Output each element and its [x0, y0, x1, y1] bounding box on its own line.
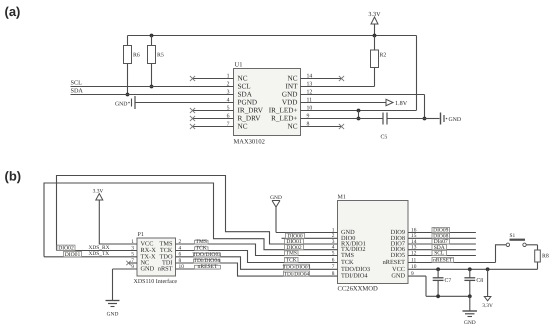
svg-text:NC: NC	[288, 75, 298, 83]
svg-text:(a): (a)	[5, 4, 21, 19]
svg-text:GND: GND	[282, 91, 298, 99]
svg-text:XDS_TX: XDS_TX	[89, 251, 110, 257]
svg-text:PGND: PGND	[238, 99, 258, 107]
svg-text:P1: P1	[138, 232, 144, 238]
svg-text:nRST: nRST	[158, 266, 173, 273]
svg-text:DIO01: DIO01	[65, 252, 81, 258]
svg-text:TMS: TMS	[341, 252, 354, 259]
svg-text:TCK: TCK	[196, 246, 207, 252]
svg-text:TDI/DIO04: TDI/DIO04	[284, 271, 310, 277]
svg-text:SCL: SCL	[434, 251, 445, 257]
svg-text:GND: GND	[449, 117, 462, 123]
svg-text:TMS: TMS	[286, 251, 297, 257]
svg-text:TMS: TMS	[195, 239, 207, 245]
svg-text:SDA: SDA	[71, 88, 84, 95]
svg-text:CC26XXMOD: CC26XXMOD	[338, 286, 379, 293]
svg-text:IR_DRV: IR_DRV	[238, 107, 264, 115]
svg-text:R5: R5	[157, 53, 164, 59]
svg-text:R_LED+: R_LED+	[271, 115, 297, 123]
svg-text:U1: U1	[235, 62, 243, 69]
svg-text:nRESET: nRESET	[198, 264, 218, 270]
svg-text:SDA: SDA	[238, 91, 253, 99]
svg-text:R_DRV: R_DRV	[238, 115, 262, 123]
svg-text:NC: NC	[238, 75, 248, 83]
svg-text:GND: GND	[464, 320, 476, 326]
svg-text:MAX30102: MAX30102	[234, 139, 265, 146]
svg-text:R6: R6	[133, 53, 140, 59]
svg-text:SCL: SCL	[238, 83, 251, 91]
svg-text:S1: S1	[510, 233, 516, 239]
svg-text:GND: GND	[391, 273, 405, 280]
svg-text:VDD: VDD	[282, 99, 298, 107]
svg-text:R8: R8	[542, 254, 549, 260]
svg-text:C8: C8	[476, 278, 483, 284]
svg-text:XDS_RX: XDS_RX	[89, 245, 110, 251]
svg-text:R2: R2	[380, 53, 387, 59]
svg-text:M1: M1	[338, 195, 346, 201]
svg-text:IR_LED+: IR_LED+	[269, 107, 298, 115]
svg-text:1.8V: 1.8V	[395, 100, 408, 107]
svg-text:NC: NC	[288, 123, 298, 131]
svg-text:NC: NC	[238, 123, 248, 131]
svg-text:C7: C7	[445, 278, 452, 284]
svg-text:(b): (b)	[5, 169, 22, 184]
svg-text:DIO5: DIO5	[391, 252, 405, 259]
svg-text:C5: C5	[381, 135, 388, 141]
svg-text:GND: GND	[107, 312, 119, 318]
svg-text:3.3V: 3.3V	[482, 303, 493, 309]
svg-text:TDO/DIO03: TDO/DIO03	[283, 265, 311, 271]
svg-text:3.3V: 3.3V	[93, 189, 104, 195]
svg-text:TDO/DIO03: TDO/DIO03	[192, 252, 221, 258]
svg-text:nRESET: nRESET	[433, 258, 453, 264]
svg-text:INT: INT	[286, 83, 299, 91]
svg-text:XDS110 Interface: XDS110 Interface	[134, 278, 178, 285]
svg-text:TDI/DIO4: TDI/DIO4	[341, 273, 368, 280]
svg-text:DIO02: DIO02	[58, 246, 74, 252]
svg-text:SCL: SCL	[71, 80, 83, 87]
svg-text:GND: GND	[115, 102, 128, 108]
svg-text:TCK: TCK	[286, 258, 297, 264]
svg-text:GND: GND	[141, 266, 155, 273]
